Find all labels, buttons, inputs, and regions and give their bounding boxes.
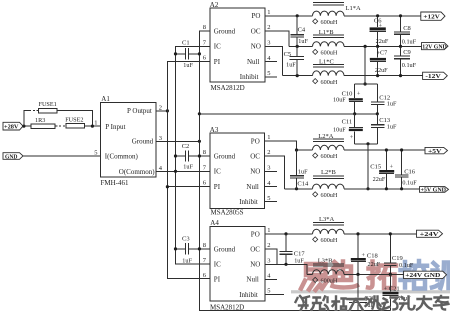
converter module A4 MSA2812D (210, 219, 265, 311)
svg-text:1uF: 1uF (387, 101, 397, 108)
node chain bottom (366, 142, 369, 145)
svg-text:8: 8 (203, 242, 206, 249)
svg-text:600uH: 600uH (321, 192, 338, 199)
wire A3 Null stub (265, 186, 278, 188)
watermark char di (333, 262, 358, 288)
svg-text:Ground: Ground (214, 152, 236, 160)
wire A3 PI row (167, 186, 210, 188)
svg-text:+: + (384, 286, 388, 293)
capacitor C16 0.1uF (395, 148, 417, 190)
node A1 pin2 (166, 109, 169, 112)
svg-text:3: 3 (267, 165, 270, 172)
svg-text:22uF: 22uF (376, 38, 389, 45)
capacitor C14 1uF (290, 150, 309, 189)
svg-text:C16: C16 (404, 168, 416, 175)
wire A3 OC drop (265, 156, 285, 189)
wire L1*C feed row (-12V rail) (282, 75, 422, 77)
svg-text:MSA2812D: MSA2812D (211, 84, 245, 92)
svg-text:FUSE2: FUSE2 (65, 116, 83, 123)
connector +5V (425, 147, 448, 154)
svg-text:1: 1 (267, 227, 270, 234)
inductor L3*A (313, 216, 345, 244)
svg-text:Inhibit: Inhibit (239, 291, 258, 299)
svg-text:PO: PO (251, 137, 260, 145)
connector +12V (421, 12, 445, 21)
connector GND (3, 153, 23, 161)
svg-text:NO: NO (250, 168, 260, 176)
svg-text:600uH: 600uH (321, 79, 338, 86)
wire chain bottom rail (355, 143, 378, 145)
node C17 top (284, 232, 287, 235)
svg-text:1: 1 (94, 120, 97, 127)
svg-text:22uF: 22uF (375, 67, 388, 74)
svg-text:3: 3 (267, 257, 270, 264)
svg-text:1uF: 1uF (183, 62, 193, 69)
svg-text:+5V: +5V (428, 149, 442, 155)
gray layer (296, 296, 449, 310)
watermark char xun (432, 263, 449, 289)
svg-text:L2*B: L2*B (321, 169, 336, 176)
capacitor C19 0.1uF (384, 232, 414, 276)
svg-text:2: 2 (159, 104, 162, 111)
resistor 1R3 (31, 117, 55, 128)
svg-text:MSA2805S: MSA2805S (211, 209, 244, 217)
svg-text:5: 5 (267, 195, 270, 202)
watermark row2 gray slogan characters (296, 296, 449, 310)
svg-text:C1: C1 (182, 40, 190, 47)
capacitor C5 (284, 46, 304, 75)
svg-text:2: 2 (267, 242, 270, 249)
watermark char yi (301, 264, 329, 290)
connector +24V (417, 230, 443, 238)
capacitor C7 22uF (370, 46, 388, 77)
capacitor C15 22uF (370, 148, 394, 190)
wire A2 OC drop (265, 31, 289, 46)
node C14 top (295, 148, 298, 151)
svg-text:Null: Null (246, 183, 259, 191)
svg-text:8: 8 (203, 149, 206, 156)
svg-text:+: + (377, 50, 381, 57)
wire A4 Null stub (265, 279, 277, 281)
node C5 bottom (296, 74, 299, 77)
capacitor C4 (291, 16, 309, 47)
svg-text:C11: C11 (342, 119, 353, 126)
filter module A1 FMH-461 (101, 95, 157, 187)
wire chain bottom to +5VGND (367, 144, 369, 189)
svg-text:OC: OC (251, 27, 261, 35)
svg-text:1uF: 1uF (294, 258, 304, 265)
svg-text:FMH-461: FMH-461 (101, 179, 130, 187)
svg-text:O(Common): O(Common) (119, 168, 155, 176)
svg-text:P Input: P Input (105, 123, 125, 131)
svg-text:+: + (379, 23, 383, 30)
svg-text:10uF: 10uF (333, 96, 346, 103)
svg-text:Null: Null (246, 276, 259, 284)
svg-text:22uF: 22uF (368, 261, 381, 268)
svg-text:C8: C8 (403, 25, 411, 32)
node mid rail C10/C11 (353, 112, 356, 115)
node chain top (364, 82, 367, 85)
wire A1 P Output to PI bus (156, 110, 167, 112)
svg-text:PI: PI (214, 276, 221, 284)
svg-text:PO: PO (251, 230, 260, 238)
svg-text:C17: C17 (294, 251, 306, 258)
wire chain top rail (355, 83, 378, 85)
capacitor C8 0.1uF (394, 14, 417, 48)
capacitor C3 (174, 236, 210, 265)
svg-text:GND: GND (5, 154, 18, 160)
node C14 bottom (295, 187, 298, 190)
svg-text:Inhibit: Inhibit (240, 73, 259, 81)
svg-text:NO: NO (250, 261, 260, 269)
svg-text:C5: C5 (284, 51, 292, 58)
wire GND to A1 pin5 (23, 155, 101, 157)
wire A2 PO row (+12V rail) (265, 15, 421, 17)
inductor L1*A (313, 3, 361, 26)
svg-text:3: 3 (159, 135, 162, 142)
svg-text:IC: IC (214, 43, 221, 51)
node 12VGND chain drop (364, 45, 367, 48)
wire A1 O(Common) row to A3 IC (156, 170, 210, 172)
svg-text:IC: IC (214, 168, 221, 176)
wire A4 Inhibit stub (265, 294, 284, 296)
svg-text:C18: C18 (367, 253, 378, 260)
converter module A3 MSA2805S (210, 126, 265, 217)
wire +5V rail (297, 149, 426, 151)
svg-text:-12V: -12V (425, 74, 441, 80)
capacitor C18 22uF (351, 232, 381, 276)
connector -12V (423, 72, 448, 80)
svg-text:+24V: +24V (420, 232, 440, 238)
svg-text:0.1uF: 0.1uF (402, 62, 417, 69)
svg-text:L3*A: L3*A (319, 216, 334, 223)
svg-text:3: 3 (267, 40, 270, 47)
node +5VGND chain (366, 187, 369, 190)
svg-text:2: 2 (267, 149, 270, 156)
wire +24VGND rail (307, 273, 404, 275)
capacitor C13 1uF (371, 114, 397, 144)
svg-text:+: + (357, 91, 361, 98)
capacitor C17 1uF (280, 234, 306, 265)
wire +28V main row (23, 125, 101, 127)
svg-text:10uF: 10uF (333, 127, 346, 134)
wire 12VGND to chain top rail (364, 46, 366, 84)
svg-text:C21: C21 (389, 286, 400, 293)
watermark gray band (291, 290, 450, 293)
watermark row1 big characters (behind schematic) (301, 261, 449, 290)
svg-text:0.1uF: 0.1uF (402, 180, 417, 187)
wire chain mid rail (199, 113, 377, 115)
node common bus A3 IC (174, 170, 177, 173)
svg-text:PO: PO (252, 12, 261, 20)
svg-text:600uH: 600uH (321, 50, 338, 57)
svg-text:12V GND: 12V GND (422, 44, 447, 50)
svg-text:C15: C15 (370, 164, 381, 171)
node C17 bottom (284, 263, 287, 266)
node C4 bottom / C5 top (296, 45, 299, 48)
watermark char tuo (368, 262, 396, 289)
connector +5V GND (420, 187, 449, 194)
svg-text:600uH: 600uH (321, 237, 338, 244)
wire A2 NO drop (265, 46, 282, 75)
svg-text:+: + (350, 134, 354, 141)
svg-text:Inhibit: Inhibit (239, 198, 258, 206)
svg-text:FUSE1: FUSE1 (39, 101, 57, 108)
svg-text:600uH: 600uH (321, 19, 338, 26)
svg-text:1uF: 1uF (387, 123, 397, 130)
svg-text:C14: C14 (297, 181, 309, 188)
svg-text:1R3: 1R3 (35, 117, 45, 124)
wire A2 Inhibit stub (265, 76, 277, 78)
svg-text:OC: OC (250, 245, 260, 253)
wire common bus with A2 IC row and A4 IC row (176, 46, 211, 264)
svg-text:NO: NO (251, 43, 261, 51)
svg-text:C9: C9 (403, 49, 411, 56)
svg-text:+: + (390, 164, 394, 171)
svg-text:PI: PI (214, 183, 221, 191)
svg-text:C2: C2 (182, 143, 190, 150)
capacitor C12 1uF (371, 84, 397, 114)
svg-text:5: 5 (267, 70, 270, 77)
svg-text:PI: PI (214, 58, 221, 66)
svg-text:L3*B: L3*B (318, 257, 333, 264)
node A1 ground (198, 140, 201, 143)
svg-text:1uF: 1uF (286, 62, 296, 69)
svg-text:1: 1 (267, 134, 270, 141)
svg-text:C7: C7 (380, 49, 387, 56)
node pin1 junction (91, 125, 94, 128)
svg-text:Ground: Ground (214, 245, 236, 253)
svg-text:IC: IC (214, 261, 221, 269)
svg-text:C4: C4 (298, 27, 306, 34)
svg-text:1uF: 1uF (298, 38, 308, 45)
wire A3 NO stub (265, 170, 278, 172)
svg-text:8: 8 (203, 24, 206, 31)
node A3 PI (166, 185, 169, 188)
wire A4 NO row (265, 264, 307, 274)
svg-text:+5V GND: +5V GND (421, 188, 447, 194)
svg-text:2: 2 (267, 24, 270, 31)
svg-text:Null: Null (247, 58, 260, 66)
capacitor C9 0.1uF (394, 46, 417, 77)
inductor L2*B (313, 169, 345, 199)
svg-text:1uF: 1uF (298, 169, 308, 176)
svg-text:1uF: 1uF (182, 258, 192, 265)
wire A3 Inhibit stub (265, 201, 278, 203)
wire ground bus with A2 Ground row and bottom return (199, 31, 390, 311)
node C4 top (296, 14, 299, 17)
svg-text:0.1uF: 0.1uF (402, 39, 417, 46)
wire L1*B feed row (12V GND rail) (289, 45, 422, 47)
svg-text:+: + (362, 252, 366, 259)
watermark char pei (401, 261, 429, 289)
connector +24V GND (404, 271, 447, 279)
svg-text:C3: C3 (182, 236, 190, 243)
svg-text:MSA2812D: MSA2812D (210, 303, 244, 311)
svg-text:5: 5 (267, 288, 270, 295)
svg-text:Ground: Ground (132, 138, 154, 146)
capacitor C6 22uF (370, 14, 389, 48)
svg-text:0.1uF: 0.1uF (399, 262, 414, 269)
svg-text:+24V GND: +24V GND (405, 273, 441, 279)
wire +24V rail (265, 233, 417, 235)
inductor L1*B (313, 29, 345, 57)
svg-text:1: 1 (267, 9, 270, 16)
svg-text:P Output: P Output (127, 107, 152, 115)
svg-text:+12V: +12V (423, 15, 440, 21)
svg-text:600uH: 600uH (321, 153, 338, 160)
connector +28V (3, 122, 23, 130)
svg-text:C19: C19 (392, 255, 403, 262)
svg-text:A1: A1 (101, 95, 110, 103)
svg-text:+28V: +28V (4, 125, 19, 131)
capacitor C20 1uF (349, 274, 375, 310)
wire PI bus with A2 PI row and A4 PI row (167, 62, 210, 279)
wire A3 PO drop to +5V rail (265, 141, 297, 150)
svg-text:L1*A: L1*A (346, 5, 361, 12)
svg-text:A3: A3 (210, 126, 219, 134)
wire A2 Null stub (265, 61, 277, 63)
svg-text:I(Common): I(Common) (105, 153, 139, 161)
wire A4 OC stub drop (265, 249, 277, 264)
node mid rail C12/C13 (376, 112, 379, 115)
inductor L3*B (313, 257, 345, 284)
fuse FUSE1 (39, 101, 58, 113)
capacitor C11 10uF (333, 114, 363, 144)
wire FUSE1 branch (24, 111, 93, 127)
svg-text:A4: A4 (210, 219, 219, 227)
fuse FUSE2 (65, 116, 84, 128)
capacitor C21 10uF (383, 274, 412, 310)
wire A1 Ground row (156, 140, 199, 142)
capacitor C10 10uF (333, 84, 363, 114)
wire +5VGND rail (284, 188, 419, 190)
inductor L1*C (313, 58, 345, 85)
svg-text:A2: A2 (210, 1, 219, 9)
svg-text:OC: OC (250, 152, 260, 160)
svg-text:22uF: 22uF (373, 176, 386, 183)
svg-text:Ground: Ground (214, 27, 236, 35)
converter module A2 MSA2812D (210, 1, 265, 92)
svg-text:600uH: 600uH (321, 278, 338, 285)
node fuse branch (22, 125, 25, 128)
svg-text:1uF: 1uF (183, 164, 193, 171)
svg-text:5: 5 (94, 149, 97, 156)
inductor L2*A (313, 133, 345, 160)
halo layer (296, 296, 449, 310)
capacitor C2 (174, 143, 210, 171)
capacitor C1 (174, 40, 201, 69)
connector 12V GND (422, 43, 449, 51)
node ground bus mid-rail (198, 112, 201, 115)
